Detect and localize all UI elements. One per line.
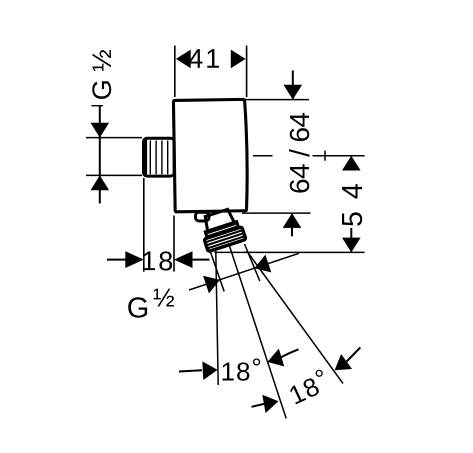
svg-text:½: ½ <box>153 282 175 312</box>
svg-text:41: 41 <box>188 44 222 74</box>
svg-text:G: G <box>127 292 150 324</box>
svg-text:18°: 18° <box>220 352 262 386</box>
svg-text:64 / 64: 64 / 64 <box>284 112 315 194</box>
svg-text:G ½: G ½ <box>87 49 117 100</box>
svg-text:54: 54 <box>337 171 369 227</box>
svg-text:18: 18 <box>141 246 175 276</box>
